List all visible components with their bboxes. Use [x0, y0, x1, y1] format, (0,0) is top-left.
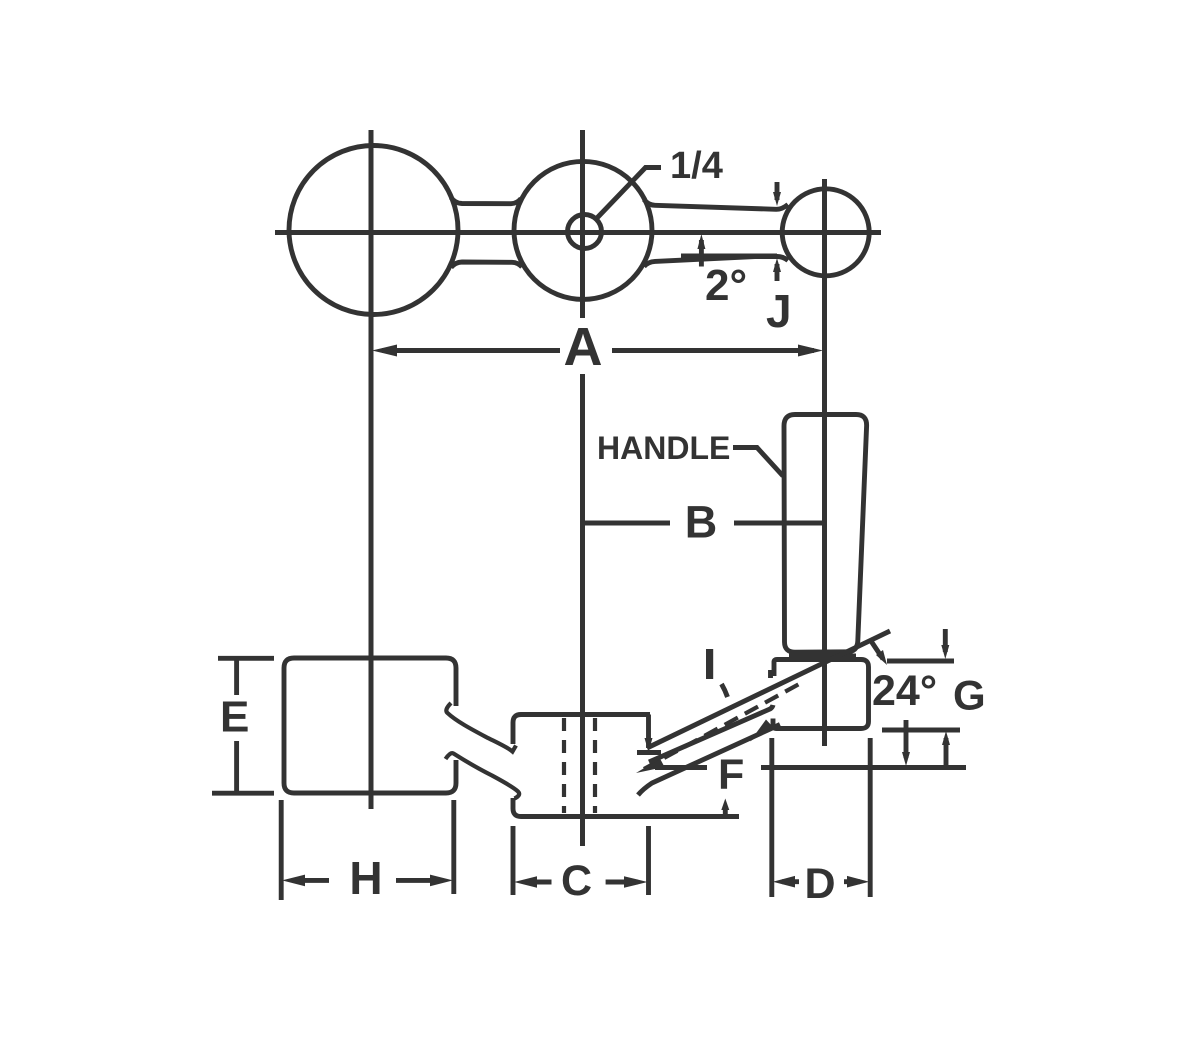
- label I: [706, 649, 713, 679]
- right block D: [773, 660, 869, 729]
- dim line B: [583, 521, 823, 526]
- right block notch step: [771, 673, 775, 679]
- arm top edge: [644, 200, 788, 210]
- J upper arrow: [775, 182, 780, 200]
- D dim line: [782, 879, 860, 884]
- dim line A: [382, 348, 814, 353]
- G top arrow: [943, 629, 948, 652]
- F dim line: [655, 765, 966, 770]
- left block E: [284, 658, 456, 793]
- svg-text:B: B: [685, 497, 718, 548]
- handle bottom thick joint: [789, 654, 856, 661]
- H extension left: [279, 800, 284, 900]
- middle vertical centerline: [580, 130, 585, 846]
- svg-text:E: E: [220, 693, 249, 742]
- rod leader arrowhead: [750, 720, 773, 742]
- C dim line: [524, 880, 638, 885]
- leader 1/4: [597, 168, 662, 219]
- rod upper edge: [647, 631, 890, 748]
- H dim line: [292, 878, 443, 883]
- rod leader line lowest: [638, 725, 780, 796]
- G top line: [887, 659, 954, 664]
- clevis top line: [637, 750, 661, 755]
- svg-text:24°: 24°: [872, 667, 937, 715]
- break curve lower: [446, 753, 520, 798]
- middle block C: [513, 715, 739, 817]
- F top arrow: [904, 720, 909, 758]
- C extension left: [511, 826, 516, 895]
- G bottom arrow: [944, 738, 949, 770]
- left large circle: [289, 146, 458, 315]
- dim E bottom bar: [212, 791, 274, 796]
- svg-text:C: C: [561, 857, 592, 905]
- 2 deg reference line: [681, 253, 777, 259]
- rod centerline arrowhead: [636, 759, 665, 774]
- dim E line: [234, 659, 239, 792]
- right vertical centerline: [822, 179, 827, 746]
- svg-text:A: A: [564, 317, 603, 377]
- svg-text:J: J: [766, 285, 792, 337]
- D extension left: [769, 738, 774, 897]
- leader I: [722, 684, 728, 697]
- break curve upper: [446, 703, 516, 752]
- D extension right: [868, 738, 873, 897]
- leader HANDLE: [733, 448, 783, 477]
- svg-text:H: H: [349, 852, 382, 904]
- svg-text:G: G: [953, 672, 986, 719]
- hidden dashed line 2: [593, 718, 597, 813]
- J lower arrow: [775, 264, 780, 281]
- right small circle: [782, 189, 869, 276]
- rod lower edge: [649, 705, 773, 762]
- left vertical centerline: [369, 130, 374, 809]
- svg-text:F: F: [718, 751, 744, 799]
- G bottom line: [882, 728, 960, 733]
- H extension right: [451, 800, 456, 894]
- angle arrow 24: [871, 641, 883, 659]
- svg-text:1/4: 1/4: [670, 145, 723, 187]
- rod centerline dashed: [644, 683, 801, 769]
- arm bottom edge: [644, 256, 788, 266]
- hole 1/4 circle: [568, 215, 602, 249]
- svg-text:HANDLE: HANDLE: [597, 430, 730, 466]
- svg-text:2°: 2°: [705, 261, 747, 310]
- F bottom arrow: [723, 806, 728, 817]
- middle circle: [514, 161, 652, 299]
- dim E top bar: [218, 656, 274, 661]
- neck left top edge: [451, 198, 521, 204]
- clevis arrow on block edge: [645, 738, 653, 752]
- handle outline: [784, 415, 867, 653]
- C extension right: [646, 826, 651, 895]
- neck left bottom edge: [451, 262, 522, 268]
- 2 deg arrow tick: [699, 240, 704, 267]
- hidden dashed line 1: [562, 718, 566, 813]
- horizontal centerline: [275, 230, 881, 235]
- svg-text:D: D: [804, 860, 835, 908]
